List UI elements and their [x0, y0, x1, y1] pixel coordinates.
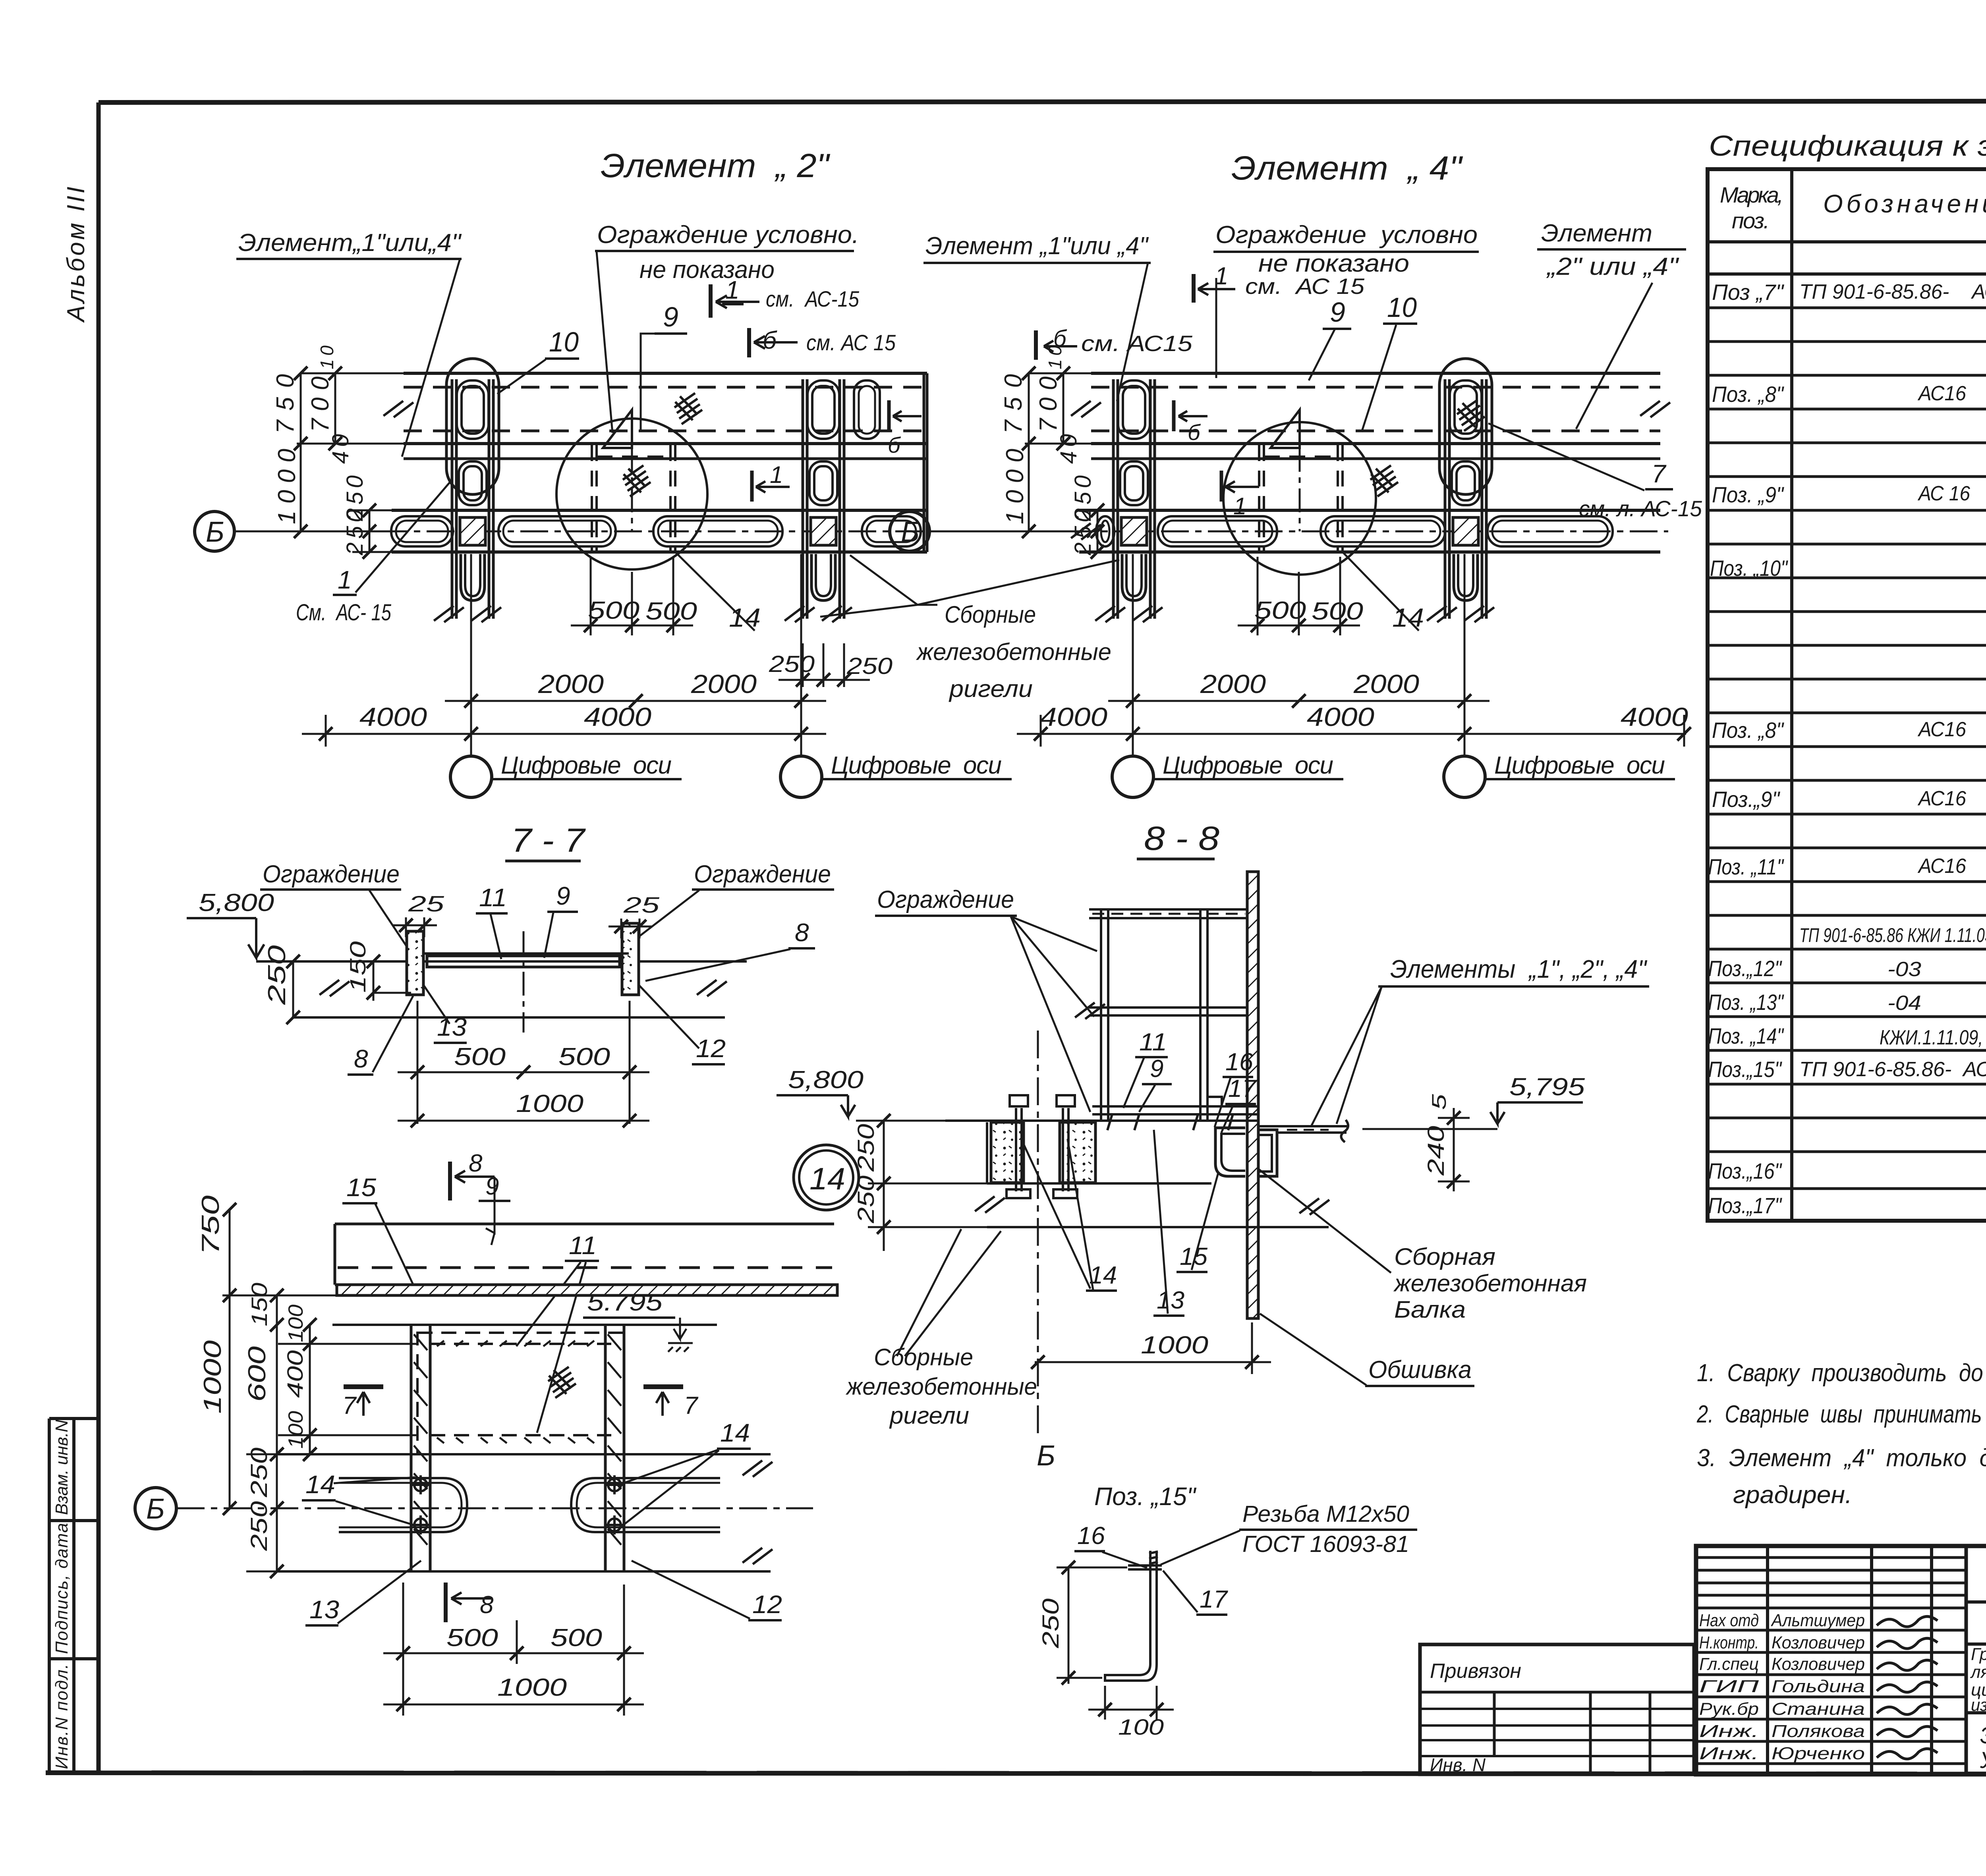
anchor bolt 2	[1062, 1108, 1064, 1191]
svg-text:15: 15	[1180, 1243, 1208, 1270]
dim 1000 (8-8)	[1035, 1322, 1271, 1374]
dim 250 (7-7)	[292, 961, 294, 1017]
svg-text:500: 500	[558, 1043, 610, 1071]
svg-text:Гольдина: Гольдина	[1772, 1677, 1865, 1696]
svg-text:17: 17	[1200, 1586, 1229, 1613]
slot opening	[862, 516, 921, 546]
dim 1000 (plan)	[383, 1704, 644, 1706]
svg-text:4000: 4000	[584, 702, 651, 731]
dashed connection box	[592, 445, 675, 552]
svg-text:-03: -03	[1887, 958, 1921, 981]
svg-text:400: 400	[282, 1350, 307, 1398]
svg-text:Поз.„12": Поз.„12"	[1708, 956, 1782, 981]
svg-text:17: 17	[1228, 1075, 1257, 1102]
svg-text:4000: 4000	[1621, 702, 1688, 731]
slot opening	[498, 516, 616, 546]
svg-text:1: 1	[1233, 493, 1246, 519]
slot opening	[1096, 516, 1114, 546]
svg-text:250: 250	[1038, 1598, 1064, 1648]
svg-text:7 - 7: 7 - 7	[511, 822, 586, 859]
svg-text:11: 11	[569, 1231, 597, 1260]
svg-text:8: 8	[354, 1044, 368, 1073]
svg-text:12: 12	[696, 1034, 726, 1063]
svg-text:250: 250	[263, 945, 291, 1005]
dim 2000/2000 E4	[1108, 700, 1489, 702]
svg-text:Цифровые оси: Цифровые оси	[501, 752, 672, 779]
svg-text:АС16: АС16	[1917, 718, 1966, 741]
right plan post	[605, 1325, 624, 1571]
svg-text:Поз. „13": Поз. „13"	[1708, 990, 1784, 1015]
axis circle letter B	[195, 511, 234, 551]
slot strip	[392, 509, 927, 512]
svg-text:Поз.„16": Поз.„16"	[1708, 1158, 1782, 1183]
svg-text:ТП 901-6-85.86- АС15: ТП 901-6-85.86- АС15	[1799, 280, 1986, 303]
svg-text:14: 14	[1392, 603, 1424, 632]
hatch mark in box (E4)	[1370, 465, 1398, 496]
svg-text:9: 9	[556, 882, 570, 910]
shelf right of plank	[1258, 1126, 1348, 1133]
section flag b sm AC 15	[749, 328, 798, 357]
svg-text:4000: 4000	[359, 702, 427, 731]
dashed connection box (E4)	[1259, 445, 1343, 552]
crosshatch patch (plan)	[548, 1367, 576, 1398]
svg-text:Элемент „ 2": Элемент „ 2"	[601, 147, 830, 184]
svg-text:1: 1	[770, 461, 783, 488]
svg-text:АС16: АС16	[1917, 787, 1966, 810]
privyazon box	[1420, 1644, 1694, 1774]
left plan post (vertical riegel)	[411, 1325, 430, 1571]
deck plank	[427, 956, 620, 967]
svg-text:25: 25	[623, 892, 660, 917]
svg-text:ТП 901-6-85.86- АС16: ТП 901-6-85.86- АС16	[1799, 1058, 1986, 1081]
weld triangle flag	[603, 410, 632, 448]
svg-text:см. АС15: см. АС15	[1081, 331, 1193, 356]
svg-text:500: 500	[1312, 598, 1363, 625]
svg-text:б: б	[888, 432, 901, 457]
axis line down (8-8)	[1037, 1031, 1039, 1434]
svg-text:2000: 2000	[1200, 669, 1266, 699]
section flag 1 sm AC-15	[711, 284, 759, 318]
digital axis circle	[450, 756, 492, 797]
svg-text:9: 9	[1150, 1055, 1163, 1083]
left end plate	[407, 931, 423, 995]
label 14 with leader	[675, 552, 755, 631]
svg-text:см. АС 15: см. АС 15	[1245, 274, 1365, 299]
svg-text:Цифровые оси: Цифровые оси	[1163, 752, 1333, 779]
dim 2000/2000 E2	[445, 700, 826, 702]
svg-text:Поз. „11": Поз. „11"	[1708, 854, 1784, 879]
dim 4000/4000 E2	[302, 715, 826, 747]
label 14 with leader (E4)	[1343, 552, 1419, 631]
svg-text:б: б	[1053, 326, 1067, 351]
svg-text:14: 14	[729, 603, 761, 632]
U slots in plan band	[339, 1478, 467, 1532]
label 13 (7-7)	[423, 985, 450, 1024]
svg-text:11: 11	[479, 883, 507, 912]
svg-text:железобетонные: железобетонные	[845, 1373, 1037, 1400]
svg-text:см. л. АС-15: см. л. АС-15	[1579, 496, 1702, 521]
dim 100 (pos15)	[1088, 1686, 1174, 1720]
bolts in plan	[411, 1475, 624, 1534]
svg-text:Поз „7": Поз „7"	[1712, 280, 1784, 305]
svg-text:Градирня двухсекционная с ве: Градирня двухсекционная с венти-	[1971, 1644, 1986, 1664]
in-band marker 1 (E4 band2)	[1221, 471, 1259, 502]
rebar hook rows	[437, 1341, 594, 1443]
svg-text:железобетонная: железобетонная	[1393, 1270, 1587, 1297]
svg-text:градирен.: градирен.	[1733, 1481, 1852, 1509]
svg-text:Поз.„17": Поз.„17"	[1708, 1193, 1782, 1218]
svg-text:150: 150	[247, 1283, 272, 1326]
svg-text:11: 11	[1139, 1029, 1167, 1056]
svg-text:Поз.„15": Поз.„15"	[1708, 1057, 1782, 1082]
in-band marker 1 (band2)	[752, 471, 790, 502]
beam band in plan	[335, 1224, 837, 1285]
dim 250/250 right	[779, 643, 870, 687]
svg-text:Поз.„9": Поз.„9"	[1712, 787, 1780, 812]
svg-text:250: 250	[769, 651, 815, 677]
svg-text:16: 16	[1077, 1522, 1105, 1550]
section markers 7 in plan	[344, 1387, 383, 1416]
svg-text:7: 7	[1652, 459, 1667, 488]
svg-text:Элемент „ 4": Элемент „ 4"	[1231, 149, 1463, 187]
svg-text:ТП 901-6-85.86 КЖИ 1.11.03 Ал: ТП 901-6-85.86 КЖИ 1.11.03 Ал IV	[1799, 924, 1986, 946]
hatch mark band1 (E4)	[1457, 400, 1485, 431]
svg-text:б: б	[1188, 420, 1201, 445]
svg-text:Полякова: Полякова	[1772, 1722, 1865, 1741]
svg-text:14: 14	[305, 1470, 335, 1499]
svg-text:500: 500	[1254, 597, 1306, 624]
in-band marker b (E4)	[1174, 400, 1207, 431]
weld triangle flag (E4)	[1271, 410, 1300, 448]
svg-text:1000: 1000	[1141, 1332, 1208, 1359]
svg-text:250: 250	[846, 653, 893, 679]
svg-text:ляторами 3ВГ25 капельная с с: ляторами 3ВГ25 капельная с сек-	[1970, 1662, 1986, 1682]
svg-text:14: 14	[809, 1161, 845, 1196]
svg-text:2000: 2000	[538, 669, 604, 699]
specification table grid	[1708, 169, 1986, 1221]
channel piece right of plank	[1258, 1130, 1277, 1176]
svg-text:13: 13	[309, 1595, 339, 1624]
svg-text:Поз. „14": Поз. „14"	[1708, 1023, 1784, 1048]
svg-text:100: 100	[284, 1411, 307, 1449]
svg-text:Станина: Станина	[1772, 1699, 1865, 1719]
svg-text:Обшивка: Обшивка	[1368, 1356, 1472, 1384]
left dim stack (plan)	[230, 1210, 417, 1571]
node circle 14 (8-8)	[794, 1145, 859, 1210]
svg-text:4000: 4000	[1307, 702, 1374, 731]
svg-text:Цифровые оси: Цифровые оси	[831, 752, 1002, 779]
svg-text:750: 750	[197, 1195, 224, 1255]
svg-text:8: 8	[469, 1150, 483, 1177]
svg-text:5: 5	[1428, 1094, 1450, 1110]
svg-text:1: 1	[338, 566, 352, 594]
svg-text:1000: 1000	[516, 1090, 583, 1117]
svg-text:Б: Б	[146, 1493, 165, 1525]
dim 500/500 (7-7)	[398, 1001, 649, 1124]
section marker 8/9 above plan	[450, 1162, 495, 1245]
svg-text:АС16: АС16	[1917, 382, 1966, 405]
dim 150 (7-7)	[373, 961, 411, 1001]
concrete block 1	[991, 1122, 1024, 1183]
dim 500/500 (plan)	[383, 1583, 644, 1716]
svg-text:500: 500	[446, 1624, 498, 1652]
svg-text:Поз. „10": Поз. „10"	[1710, 556, 1788, 581]
svg-text:100: 100	[284, 1305, 307, 1342]
svg-text:ригели: ригели	[949, 676, 1033, 702]
post centerlines to axis circles	[1133, 554, 1464, 756]
svg-text:9: 9	[485, 1173, 499, 1200]
signatures	[1877, 1616, 1938, 1759]
svg-text:Рук.бр: Рук.бр	[1699, 1699, 1759, 1719]
section marker 8 below plan	[446, 1583, 493, 1622]
dim 4000 triple E4	[1017, 733, 1686, 735]
svg-text:Марка,: Марка,	[1720, 182, 1783, 207]
svg-text:600: 600	[243, 1346, 271, 1402]
axis chain line (plan)	[177, 1507, 813, 1509]
svg-text:Козловичер: Козловичер	[1772, 1654, 1865, 1674]
svg-text:240: 240	[1423, 1126, 1449, 1176]
svg-text:15: 15	[346, 1173, 376, 1202]
svg-text:Спецификация к элементам 2", 4: Спецификация к элементам 2", 4" и узлу „…	[1709, 130, 1986, 162]
bottom line of beam zone	[987, 1226, 1329, 1228]
label 12 (7-7)	[639, 985, 699, 1048]
dim 500/500 E2	[571, 557, 693, 635]
concrete block 2	[1060, 1122, 1095, 1183]
svg-text:25: 25	[408, 891, 445, 916]
svg-text:250: 250	[246, 1501, 272, 1551]
svg-text:Инж.: Инж.	[1699, 1744, 1759, 1763]
svg-text:5,800: 5,800	[788, 1066, 864, 1094]
detail circle node 14	[556, 419, 707, 569]
svg-text:Гл.спец: Гл.спец	[1699, 1654, 1759, 1674]
digital axis circle	[1112, 756, 1153, 797]
svg-text:см. АС 15: см. АС 15	[806, 330, 896, 355]
svg-text:Балка: Балка	[1394, 1296, 1466, 1323]
svg-text:не показано: не показано	[1258, 250, 1409, 277]
svg-text:1000: 1000	[199, 1340, 226, 1414]
svg-text:1000: 1000	[497, 1674, 567, 1701]
svg-text:12: 12	[752, 1590, 782, 1619]
svg-text:Элемент „1"или „4": Элемент „1"или „4"	[925, 232, 1149, 260]
vertical centerline (7-7)	[523, 931, 525, 1033]
slot opening	[1158, 516, 1277, 546]
svg-text:Ограждение: Ограждение	[877, 886, 1014, 913]
svg-text:Резьба М12х50: Резьба М12х50	[1242, 1501, 1409, 1527]
svg-text:8 - 8: 8 - 8	[1144, 820, 1219, 857]
svg-text:Взам. инв.N: Взам. инв.N	[52, 1420, 71, 1515]
dim 1000 (7-7)	[398, 1120, 649, 1122]
in-band marker b (right)	[889, 400, 922, 431]
svg-text:ригели: ригели	[889, 1402, 969, 1429]
svg-text:1: 1	[725, 276, 740, 304]
svg-text:см. АС-15: см. АС-15	[766, 286, 860, 311]
svg-text:Б: Б	[1037, 1440, 1055, 1472]
svg-text:500: 500	[588, 597, 639, 624]
digital axis circle	[1444, 756, 1485, 797]
plan detail box dashed	[417, 1333, 624, 1454]
svg-text:Поз. „8": Поз. „8"	[1712, 718, 1784, 743]
level line	[256, 960, 747, 963]
svg-text:2000: 2000	[691, 669, 757, 699]
svg-text:ГИП: ГИП	[1699, 1677, 1759, 1696]
svg-text:из железобетонных элементов: из железобетонных элементов	[1971, 1695, 1986, 1715]
svg-text:4000: 4000	[1040, 702, 1107, 731]
svg-text:500: 500	[645, 598, 697, 625]
svg-text:150: 150	[345, 941, 370, 993]
washer plate 17	[1128, 1564, 1162, 1567]
svg-text:Узел „14." Спецификация.: Узел „14." Спецификация.	[1980, 1747, 1986, 1773]
svg-text:750: 750	[1000, 374, 1027, 434]
svg-text:Юрченко: Юрченко	[1772, 1744, 1865, 1763]
svg-text:Сборные: Сборные	[945, 601, 1036, 628]
line 150 below strip	[332, 1324, 717, 1326]
svg-text:Поз. „9": Поз. „9"	[1712, 482, 1784, 507]
detail circle node (E4)	[1223, 422, 1376, 575]
hatch mark band1	[674, 393, 702, 424]
svg-text:14: 14	[1089, 1262, 1117, 1289]
svg-text:Козловичер: Козловичер	[1772, 1633, 1865, 1652]
svg-text:Поз. „15": Поз. „15"	[1094, 1482, 1197, 1511]
svg-text:Инж.: Инж.	[1699, 1722, 1759, 1741]
svg-text:500: 500	[454, 1043, 506, 1071]
svg-text:Б: Б	[901, 516, 920, 548]
svg-text:Ограждение условно: Ограждение условно	[1215, 221, 1478, 249]
svg-text:„2" или „4": „2" или „4"	[1546, 253, 1680, 280]
svg-text:Элемент: Элемент	[1541, 220, 1652, 247]
plan lower band lines	[278, 1454, 771, 1571]
right end plate	[622, 923, 639, 995]
svg-text:8: 8	[480, 1591, 494, 1619]
svg-text:Цифровые оси: Цифровые оси	[1494, 752, 1665, 779]
svg-text:Привязон: Привязон	[1430, 1660, 1521, 1683]
svg-text:Ограждение: Ограждение	[694, 861, 831, 888]
svg-text:Элементы „2", „4." Плоны.: Элементы „2", „4." Плоны.	[1980, 1723, 1986, 1749]
slot opening	[1488, 516, 1613, 546]
svg-text:500: 500	[551, 1624, 602, 1652]
precast post (riegel) at x=1190	[434, 359, 501, 625]
dims 250 left (8-8)	[868, 1121, 1017, 1251]
svg-text:1. Сварку производить до у: 1. Сварку производить до установки дерев…	[1697, 1359, 1986, 1387]
railing posts	[1089, 909, 1247, 1121]
svg-text:Сборная: Сборная	[1394, 1243, 1495, 1270]
element 2 right end detail	[854, 380, 880, 439]
svg-text:Элементы „1", „2", „4": Элементы „1", „2", „4"	[1390, 955, 1648, 983]
sheathing plank (obshivka) vertical	[1247, 872, 1258, 1318]
dim 240/5 right	[1438, 1108, 1470, 1191]
svg-text:АС16: АС16	[1917, 855, 1966, 878]
svg-text:поз.: поз.	[1732, 208, 1770, 233]
post centerlines to axis circles	[471, 554, 801, 756]
left staff mini-column	[49, 1419, 99, 1773]
axis circle B (plan)	[135, 1488, 176, 1529]
nut/washer on deck (8-8)	[1207, 1097, 1222, 1106]
anchor bolt 1	[1007, 1095, 1077, 1198]
svg-text:б: б	[763, 327, 777, 354]
bottom ref line with breaks	[292, 1016, 725, 1019]
svg-text:5,795: 5,795	[1509, 1073, 1585, 1101]
svg-text:Б: Б	[206, 516, 224, 548]
title block frame	[1696, 1546, 1986, 1774]
svg-text:1: 1	[1215, 262, 1228, 290]
digital axis circle	[780, 756, 822, 797]
hatch mark in box	[623, 465, 651, 496]
left dimension stack	[297, 373, 419, 552]
L-rod (pos 15)	[1105, 1551, 1162, 1681]
dim 500/500 E4	[1238, 557, 1360, 635]
svg-text:Нах отд: Нах отд	[1699, 1611, 1759, 1630]
svg-text:2000: 2000	[1353, 669, 1419, 699]
svg-text:13: 13	[1157, 1287, 1184, 1314]
svg-text:2. Сварные швы принимать: 2. Сварные швы принимать hш = 4мм.	[1696, 1401, 1986, 1428]
svg-text:13: 13	[437, 1013, 467, 1041]
svg-text:Ограждение: Ограждение	[263, 861, 400, 888]
svg-text:3. Элемент „4" только для: 3. Элемент „4" только для 3-х, 4-х, 5-и …	[1697, 1444, 1986, 1472]
svg-text:Ограждение условно.: Ограждение условно.	[597, 221, 859, 249]
slot opening	[1321, 516, 1445, 546]
slot opening	[653, 516, 782, 546]
svg-text:АС 16: АС 16	[1917, 482, 1970, 505]
thread hatches	[1149, 1552, 1158, 1564]
svg-text:250: 250	[246, 1448, 272, 1498]
left dimension stack	[1025, 373, 1107, 552]
svg-text:не показано: не показано	[639, 256, 775, 284]
svg-text:См. АС- 15: См. АС- 15	[296, 600, 392, 625]
svg-text:700: 700	[307, 376, 334, 432]
svg-text:Сборные: Сборные	[874, 1344, 973, 1370]
svg-text:КЖИ.1.11.09, Ал IV: КЖИ.1.11.09, Ал IV	[1880, 1026, 1986, 1049]
slot strip	[1079, 509, 1660, 512]
svg-text:700: 700	[1035, 376, 1062, 432]
svg-text:14: 14	[720, 1419, 750, 1447]
svg-text:железобетонные: железобетонные	[916, 639, 1111, 665]
svg-text:Подпись, дата: Подпись, дата	[52, 1523, 71, 1654]
svg-text:7: 7	[342, 1392, 357, 1419]
svg-text:10: 10	[1387, 292, 1417, 323]
svg-text:Элемент„1"или„4": Элемент„1"или„4"	[238, 229, 462, 257]
svg-text:8: 8	[795, 918, 809, 947]
svg-text:7: 7	[684, 1392, 699, 1419]
precast post (riegel) at x=2855	[1095, 379, 1162, 625]
svg-text:100: 100	[1118, 1714, 1164, 1739]
precast post (riegel) at x=2073	[784, 379, 852, 625]
section flag b sm AC15 (E4)	[1036, 330, 1077, 360]
svg-text:-04: -04	[1887, 992, 1921, 1015]
svg-text:5,800: 5,800	[199, 889, 274, 917]
svg-text:Инв. N: Инв. N	[1430, 1754, 1486, 1775]
top hatched sheathing strip	[337, 1285, 837, 1295]
svg-text:16: 16	[1225, 1048, 1254, 1076]
guard band outline (ograzhdenie)	[1067, 373, 1668, 552]
rails	[1089, 908, 1247, 911]
svg-text:Инв.N подл.: Инв.N подл.	[52, 1664, 71, 1769]
slot opening	[391, 516, 453, 546]
svg-text:Альтшумер: Альтшумер	[1770, 1611, 1865, 1630]
svg-text:9: 9	[1330, 297, 1345, 328]
svg-text:Альбом III: Альбом III	[62, 187, 90, 323]
svg-text:250: 250	[342, 510, 368, 556]
section flag 1 sm AC 15 (E4)	[1194, 274, 1235, 303]
svg-text:Н.контр.: Н.контр.	[1699, 1633, 1759, 1652]
C-bracket (pos 15 installed)	[1215, 1128, 1245, 1176]
axis circle letter B	[890, 511, 929, 551]
svg-text:10: 10	[549, 326, 579, 357]
precast post (riegel) at x=3690	[1427, 359, 1494, 625]
svg-text:750: 750	[272, 374, 299, 434]
dim 250 (pos15)	[1057, 1567, 1127, 1684]
svg-text:Поз. „8": Поз. „8"	[1712, 382, 1784, 407]
deck at railing bottom	[945, 1106, 1257, 1130]
svg-text:ГОСТ 16093-81: ГОСТ 16093-81	[1242, 1531, 1409, 1557]
